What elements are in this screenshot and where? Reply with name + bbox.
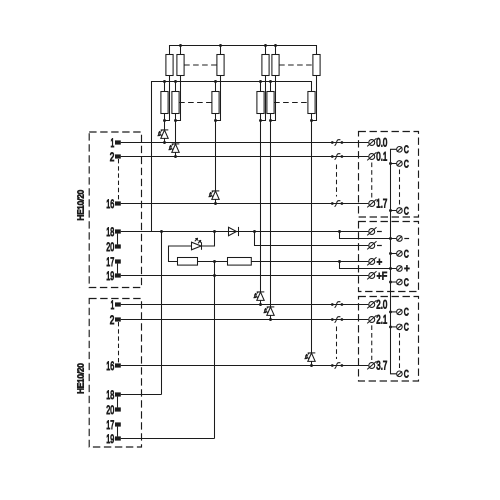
wire 1 to 0.0 [121,142,368,144]
wire pin18 X2 to rail [121,394,162,396]
terminal 2.0 [369,302,375,308]
terminal 2.1 [369,317,375,323]
wire pin18-pin20 link X2 [117,397,119,408]
LED D6 ch3.7 [308,352,316,354]
terminal 0.1 [369,154,375,160]
pin 2 X2 [115,317,121,321]
resistor R4a ch2.0 row1 [262,55,269,76]
wire pin2-pin16 dashed X2 [118,322,120,363]
wire R6b lead down to LED [311,114,313,353]
wire 1 to 2.0 [121,304,368,306]
terminal common C y210.5 [389,209,392,212]
svg-text:C: C [404,248,409,260]
pin 20 X1 [115,244,121,248]
svg-text:19: 19 [106,432,114,446]
wire R5b lead down to LED [270,114,272,307]
junction LED D1 on wire [163,141,166,144]
pin 1 X2 [115,302,121,306]
dashed omitted-resistors link 2 [279,64,313,66]
plug contact 1.7 [331,202,334,205]
resistor R4b ch2.0 row2 [257,92,264,114]
junction node ch2.1 [269,119,272,122]
wire pin2-pin16 dashed X1 [118,159,120,201]
svg-text:C: C [404,205,409,217]
LED D2 ch0.1 [172,143,180,145]
connector X2 HE10/20 dashed box [89,299,141,448]
pin 1 X1 [115,140,121,144]
terminal +F [369,273,375,279]
svg-text:C: C [404,158,409,170]
connector X1 HE10/20 dashed box [89,132,141,288]
terminal common C y311.9 [389,310,392,313]
terminal common C y282.0 [389,281,392,284]
pin 2 X1 [115,154,121,158]
svg-text:17: 17 [106,418,114,432]
wire R4b lead down to LED [260,114,262,292]
junction top-bus x220.5 [219,44,222,47]
resistor R1b ch0.0 row2 [161,92,168,114]
wire 16 to 3.7 [121,365,368,367]
bus second rail net18 [152,82,312,232]
LED D3 arrows [212,191,214,192]
svg-text:+F: +F [377,270,388,282]
svg-text:0.0: 0.0 [376,138,387,150]
svg-text:18: 18 [106,388,114,402]
LED D7 power indicator [192,242,202,250]
wire pin17-pin19 link X1 [117,264,119,274]
svg-text:3.7: 3.7 [376,361,387,373]
wire C common rail [391,149,397,373]
wire 19 plus rail [121,275,368,277]
pin 17 X2 [115,422,121,426]
dashed omitted-terminals outer upper [399,170,401,205]
terminal - [369,243,375,249]
junction top-bus x265.5 [264,44,267,47]
svg-text:17: 17 [106,255,114,269]
wire pin17-pin19 link X2 [117,427,119,437]
svg-text:2.0: 2.0 [376,300,387,312]
junction LED D5 on wire [269,318,272,321]
svg-text:18: 18 [106,225,114,239]
svg-text:16: 16 [106,197,114,211]
wire R8 to terminal plus [251,261,368,263]
terminal common C y326.9 [389,325,392,328]
junction node ch2.0 [259,119,262,122]
pin 16 X1 [115,201,121,205]
wire rail net19 down to X2 pin19 [214,262,216,439]
wire 2 to 0.1 [121,156,368,158]
wire R5a bottom jog [271,76,276,121]
LED D4 arrows [257,292,259,293]
svg-text:HE10/20: HE10/20 [75,190,85,221]
plug contact 0.0 [331,141,334,144]
svg-text:C: C [404,322,409,334]
junction node ch0.1 [174,119,177,122]
wire pin19 X2 to rail [121,438,215,440]
svg-text:C: C [404,277,409,289]
wire 16 to 1.7 [121,203,368,205]
resistor R8 [228,258,252,266]
terminal common C y373.8 [397,371,403,377]
pin 20 X2 [115,407,121,411]
junction diode branch [253,230,256,233]
svg-text:C: C [404,307,409,319]
wire R1a bottom jog [165,76,170,121]
resistor R1a ch0.0 row1 [166,55,173,76]
pin 17 X1 [115,259,121,263]
wire 2 to 2.1 [121,319,368,321]
svg-text:0.1: 0.1 [376,152,387,164]
wire R7 to R8 [198,261,228,263]
dashed omitted-terminals inner lower [371,325,373,360]
dashed omitted-channels link upper [336,165,338,197]
svg-text:+: + [404,263,410,275]
resistor R2a ch0.1 row1 [177,55,184,76]
terminal common C y163.5 [389,162,392,165]
junction top-bus x275.5 [274,44,277,47]
svg-text:HE10/20: HE10/20 [75,363,85,394]
LED D1 arrows [161,130,163,131]
pin 18 X2 [115,392,121,396]
LED D6 arrows [308,353,310,354]
svg-text:16: 16 [106,359,114,373]
resistor R3a ch1.7 row1 [217,55,224,76]
junction bus2 x260.5 [259,80,262,83]
terminal 3.7 [369,363,375,369]
svg-text:+: + [377,256,383,268]
wire 18 minus rail [121,231,368,233]
wire branch to terminal minus 2 [255,232,369,246]
junction bus2 x215.5 [214,80,217,83]
junction bus2 x270.5 [269,80,272,83]
wire R2b lead down to LED [175,114,177,144]
svg-text:20: 20 [106,403,114,417]
svg-text:2.1: 2.1 [376,315,387,327]
plug contact 3.7 [331,364,334,367]
LED D7 arrows [195,239,197,241]
LED D2 arrows [172,144,174,145]
junction plus branch [338,260,341,263]
plug contact 2.0 [331,303,334,306]
wire R3b lead down to LED [215,114,217,191]
terminal 1.7 [369,201,375,207]
resistor R5a ch2.1 row1 [272,55,279,76]
terminal - [369,229,375,235]
resistor R3b ch1.7 row2 [212,92,219,114]
wire rail net18 down to X2 pin18 [161,232,163,395]
terminal common - y238.5 [389,237,392,240]
dashed omitted-resistors link 4 [274,102,308,104]
junction node ch0.0 [163,119,166,122]
terminal + [369,259,375,265]
terminal common + y268.5 [389,267,392,270]
LED D5 ch2.1 [267,306,275,308]
svg-text:20: 20 [106,240,114,254]
resistor R5b ch2.1 row2 [267,92,274,114]
junction bus2 x175.5 [174,80,177,83]
wire R1b lead down to LED [164,114,166,130]
junction top-bus x180.5 [179,44,182,47]
plug contact 2.1 [331,318,334,321]
svg-text:1.7: 1.7 [376,199,387,211]
LED D1 ch0.0 [161,129,169,131]
junction LED D4 on wire [259,303,262,306]
terminal block box 2 [359,222,419,292]
wire LED D7 anode lead [169,246,192,262]
dashed omitted-channels link lower [336,327,338,360]
junction LED D6 on wire [310,364,313,367]
pin 19 X2 [115,436,121,440]
svg-text:1: 1 [111,136,115,150]
resistor R6a ch3.7 row1 [313,55,320,76]
resistor R2b ch0.1 row2 [172,92,179,114]
dashed omitted-terminals outer lower [399,333,401,368]
junction LED D2 on wire [174,155,177,158]
svg-text:2: 2 [110,150,115,164]
svg-text:19: 19 [106,269,114,283]
wire LED D7 cathode lead to net18 [202,232,215,247]
wire pin18-pin20 link X1 [117,234,119,245]
pin 16 X2 [115,363,121,367]
terminal block box 1 [359,132,419,218]
LED D5 arrows [267,307,269,308]
dashed omitted-resistors link 1 [184,64,217,66]
junction LED D3 on wire [214,202,217,205]
wire branch to outer plus terminal [340,262,397,269]
svg-text:C: C [404,144,409,156]
pin 18 X1 [115,229,121,233]
terminal block box 3 [359,297,419,382]
wire R2a bottom jog [176,76,181,121]
wire branch to outer minus terminal [340,232,397,239]
LED D3 ch1.7 [212,190,220,192]
bus top supply rail [170,46,317,55]
resistor R6b ch3.7 row2 [308,92,315,114]
svg-text:1: 1 [111,298,115,312]
wire R4a bottom jog [261,76,266,121]
junction node ch1.7 [214,119,217,122]
resistor R7 [178,258,198,266]
LED D4 ch2.0 [257,291,265,293]
junction minus branch [338,230,341,233]
wire R3a bottom jog [216,76,221,121]
terminal common C y253.5 [389,252,392,255]
svg-text:2: 2 [110,313,115,327]
dashed omitted-terminals inner upper [371,163,373,198]
junction bus2 x164.5 [163,80,166,83]
terminal 0.0 [369,140,375,146]
wire R6a bottom jog [312,76,317,121]
diode V1 [229,227,237,235]
junction node ch3.7 [310,119,313,122]
dashed omitted-resistors link 3 [179,102,212,104]
plug contact 0.1 [331,155,334,158]
pin 19 X1 [115,273,121,277]
terminal common C y149.3 [397,147,403,153]
svg-text:C: C [404,369,409,381]
